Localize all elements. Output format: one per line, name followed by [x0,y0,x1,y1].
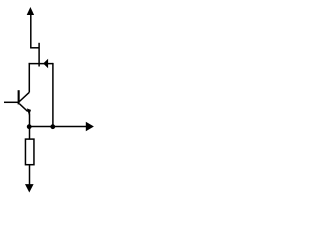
wire: emitter to node A [29,113,31,126]
current arrowhead pointing left [43,59,48,68]
wire: resistor to VEE arrow [29,165,31,185]
transistor Q1 base bar [18,90,20,104]
wire: top rail horizontal [30,47,39,49]
supply arrow up (VCC) [27,7,34,15]
wire: collector vertical [28,63,30,92]
transistor Q1 emitter arrowhead [27,108,31,115]
wire: node A down to resistor [29,127,31,140]
wire: output horizontal [29,126,86,128]
node B junction dot [50,124,55,129]
output arrowhead pointing right [86,122,94,131]
wire: VCC shaft [30,15,32,48]
transistor Q1 base lead [4,101,18,103]
supply arrow down (VEE) [25,184,34,192]
transistor Q1 emitter lead diagonal [20,104,28,112]
wire: right vertical from collector rail to node B [52,63,54,127]
wire: collector node horizontal [29,63,53,65]
transistor Q1 collector lead diagonal [19,92,29,101]
resistor R1 body [25,139,34,165]
node A junction dot [27,124,32,129]
wire: vertical drop crossing collector rail [38,43,40,67]
